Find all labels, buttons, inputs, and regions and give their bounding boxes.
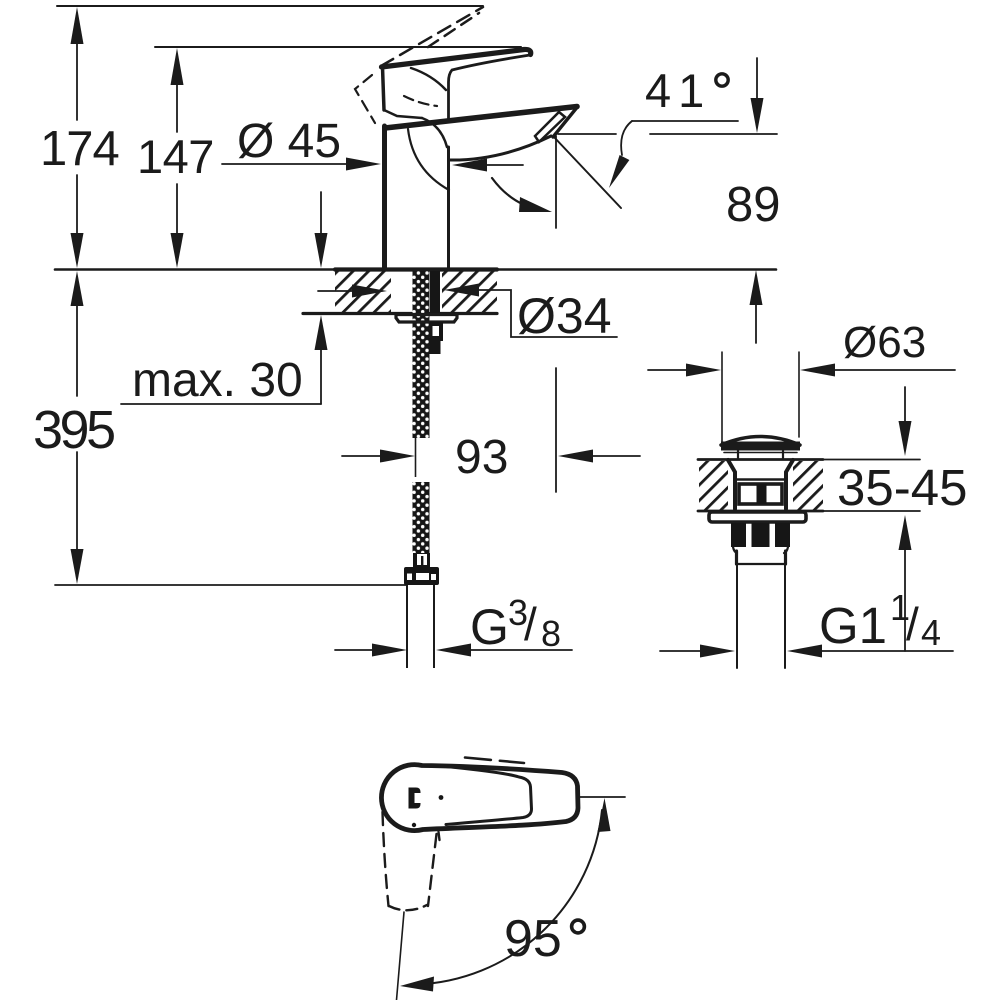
dashed lever bottom edge [428,13,479,47]
89 lower up arrow and shaft [750,270,763,305]
lever front face [383,67,385,110]
dim 395 vertical line [76,303,78,396]
flow arc with arrowhead [492,178,540,210]
svg-text:35-45: 35-45 [837,459,967,516]
svg-text:147: 147 [137,130,214,183]
dashed handle far end cap [389,905,427,910]
svg-text:G: G [470,599,509,655]
drain cap dome [721,437,800,446]
dim 93 right arrow [558,450,593,463]
dim Ø45 right arrow [452,159,487,172]
faucet body right edge [447,147,450,269]
drain locknut facets [731,523,746,547]
dashed handle rotated right edge [428,834,437,906]
dim max30 upper extension and arrow [320,192,322,236]
dim Ø45 line left [222,163,349,165]
drain body inner line [735,478,786,480]
spout underside curve [449,136,552,160]
lever chin [384,110,422,118]
dim 174 top arrow [71,7,84,44]
dim 147 vertical line [176,82,178,132]
braided flex hose lower [413,482,430,553]
deck slab bottom line [303,312,497,315]
G3/8 connection pipe [406,585,408,668]
drain tail upper section [735,551,738,564]
dim 395 top arrow [71,271,84,306]
dim Ø34 right arrow [444,284,479,297]
dashed lever neck arc [404,96,437,106]
drain cap under-rim line [724,452,797,454]
dim 174 vertical line [76,40,78,120]
95° bottom arrowhead [400,977,434,992]
41° vertex horizontal line [632,120,738,122]
dim 395 bottom arrow [71,549,84,584]
hose break centre line [415,438,417,477]
41° angle: horizontal line at aerator [558,133,616,135]
hose ferrule [413,553,430,567]
svg-text:395: 395 [33,400,114,460]
95° arc [416,810,602,985]
dim Ø34 left shaft and arrow [318,290,354,292]
deck slab top thick line [335,267,497,271]
deck slab hatching left of hole [335,271,391,312]
svg-text:/: / [906,598,919,650]
sink deck hatching left of drain [699,461,728,510]
dim 35-45 upper shaft and down arrow [904,387,906,423]
handle top view outer outline [381,765,578,831]
dim max30 leader underline [121,403,321,405]
dim 35-45 lower up arrow and shaft [899,515,912,550]
counter top line [55,268,776,271]
89 upper horizontal line [650,133,777,135]
dim max30 lower arrow [315,315,328,350]
drain body window [739,484,782,504]
dim G3/8 right arrow and shaft [436,644,471,657]
Ø63 extension line left [721,352,723,444]
89 upper shaft and down arrow [756,58,758,100]
drain tailpipe [736,564,738,668]
dim Ø63 right arrow and shaft [800,364,835,377]
top reference line (spout max height) [57,5,483,7]
braided flex hose upper [413,271,430,438]
dim G1 1/4 left shaft and arrow [660,650,702,652]
lever blade top edge [382,49,531,67]
lever dome arc [411,68,446,90]
svg-text:Ø34: Ø34 [517,288,612,344]
lever chin to body curve [422,118,447,147]
drain body taper through deck [728,460,735,509]
mounting nut stepped profile [430,322,444,341]
dim 93 right shaft [593,455,640,457]
svg-text:Ø63: Ø63 [843,318,926,367]
handle extension line downward [397,912,405,1000]
svg-text:89: 89 [726,178,781,232]
handle black D detail [409,788,421,809]
svg-text:8: 8 [541,613,561,654]
svg-text:95: 95 [504,910,562,968]
Ø63 extension line right [798,352,800,437]
handle small dot [439,795,444,800]
inner body arc [408,129,449,190]
dim 147 top arrow [171,48,184,85]
spout top edge [385,107,577,129]
dim G1 1/4 right arrow and shaft [787,645,822,658]
drain nut chamfer [733,547,737,553]
deck slab hatching right of hole [442,271,497,312]
dashed handle trace above grip [465,758,524,764]
svg-text:/: / [524,598,537,650]
dashed handle rotated left edge [383,812,389,906]
dashed lever top edge [381,7,483,66]
41° arc arrowhead [609,155,629,188]
95° horizontal reference line [580,796,625,798]
handle bottom tick [412,823,416,827]
dim 174 bottom arrow [71,233,84,268]
sink deck bottom line at drain [698,510,823,513]
dim Ø45 line right [487,164,523,166]
147 reference line [155,46,521,48]
dim 93 left shaft and arrow [342,455,382,457]
drain flange washer [709,512,806,522]
dim Ø63 left shaft and arrow [648,369,688,371]
sink deck top line at drain [698,458,823,461]
svg-text:93: 93 [455,431,508,484]
aerator outlet [535,112,565,142]
hose hex nut [404,567,439,585]
dim Ø45 left arrow [346,158,381,171]
mounting shank dark bar in deck hole [430,271,440,313]
95° top arrowhead [598,798,611,832]
drain cap bevel ticks [737,450,739,458]
faucet body left edge [382,126,387,269]
svg-text:4: 4 [921,612,941,653]
dim Ø34 leader: shaft, bend down, underline [478,290,617,337]
sink deck hatching right of drain [793,461,823,510]
svg-text:41: 41 [645,64,711,117]
svg-text:G1: G1 [819,597,887,654]
dim 147 bottom arrow [171,233,184,268]
drain cap rim [721,442,800,451]
dashed lever front face [355,75,375,123]
41° arc from vertex line down to spray line [621,121,632,155]
spout tip extension line lower [555,368,557,492]
spout tip extension line upper [555,136,557,228]
lever blade underside and neck [449,55,531,118]
dim G3/8 left shaft and arrow [335,649,374,651]
spray direction line [553,136,621,208]
svg-text:max. 30: max. 30 [132,354,303,407]
lower reference line (hose end, 395) [55,584,406,586]
handle inner contour [446,767,532,825]
dim max30 lower shaft [320,348,322,404]
mounting washer under deck [396,315,457,323]
svg-text:174: 174 [40,122,119,176]
spout tip face [553,108,577,137]
svg-text:Ø 45: Ø 45 [237,115,341,168]
